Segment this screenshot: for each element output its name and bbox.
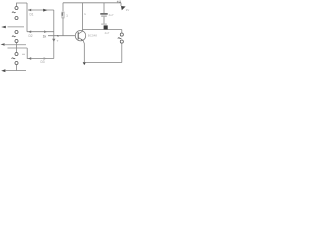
diode arrow D1 [28, 9, 31, 11]
wire winding W2 to line A [16, 43, 18, 52]
wire y27 [8, 26, 25, 28]
top rail y2.8 [63, 2, 121, 4]
svg-text:D2: D2 [29, 34, 33, 38]
winding W3 tilde [12, 57, 16, 60]
wire line B y48 [8, 47, 28, 49]
diode arrow D3 [28, 57, 31, 59]
svg-text:v: v [57, 39, 59, 43]
winding W1 terminal ring top [15, 6, 18, 9]
wire bus x27 [26, 3, 28, 32]
capacitor C1 plate top [100, 13, 107, 14]
faint label above y32 [44, 30, 47, 33]
wire emitter down x84.3 [83, 40, 84, 62]
wire corner top-right [120, 3, 122, 6]
output arrow top-right [121, 6, 126, 10]
wire winding W3 to rail [16, 65, 18, 71]
resistor R1 [62, 12, 64, 18]
tick on y10 [43, 9, 47, 12]
wire base line y35.7 [48, 35, 75, 37]
winding W2 tilde [12, 35, 16, 38]
capacitor C2 body dark [104, 25, 108, 29]
capacitor C1 plate bottom [101, 16, 107, 17]
svg-text:4u7: 4u7 [109, 13, 114, 17]
net arrow left line A [1, 43, 5, 46]
wire x63 lower to base [62, 19, 64, 36]
svg-text:1k: 1k [43, 35, 47, 39]
svg-text:4u7: 4u7 [105, 31, 110, 35]
wire rail bottom-left y70.5 [5, 70, 26, 72]
svg-text:BC548: BC548 [88, 33, 98, 37]
wire y58.5 [28, 58, 54, 60]
wire corner right y29.5 down [121, 30, 123, 33]
svg-text:D1: D1 [30, 12, 34, 16]
small dash right of W3 [22, 53, 25, 55]
output ring top [120, 33, 123, 36]
winding W1 terminal ring bottom [15, 16, 18, 19]
faint marks on y58.5 [44, 57, 47, 60]
output tilde [118, 37, 122, 40]
winding W3 terminal ring top [15, 52, 18, 55]
wire line A y44.8 [5, 44, 26, 46]
transistor Q1 emitter arrow [81, 39, 83, 41]
wire x104 mid [103, 17, 105, 24]
net arrow left line y27 [1, 26, 6, 28]
svg-text:1: 1 [66, 14, 68, 18]
capacitor C2 plate top [101, 24, 107, 25]
svg-text:k: k [85, 12, 87, 16]
wire vertical x53.8 [53, 10, 55, 59]
down arrow on x53.8 [52, 39, 55, 42]
wire y10 [28, 9, 54, 11]
wire x82.5 collector from rail [82, 3, 84, 31]
transistor Q1 circle [75, 31, 85, 41]
diode arrow D2 [28, 31, 31, 33]
wire x63 upper [62, 3, 64, 11]
wire collector line y29.5 [83, 29, 122, 31]
transistor Q1 base bar [77, 32, 79, 39]
wire bus lower x27 [26, 48, 29, 59]
net arrow left rail y70.5 [1, 69, 5, 72]
wire ring bottom down to rail [121, 43, 123, 62]
wire top-left from winding to bus [17, 3, 28, 6]
output ring bottom [120, 40, 123, 43]
ground arrow at emitter [83, 62, 86, 65]
transistor Q1 emitter stroke [78, 37, 83, 40]
wire ground rail y62.5 [84, 62, 122, 64]
transistor Q1 collector stroke [78, 31, 82, 34]
winding W2 terminal ring top [15, 30, 18, 33]
winding W2 terminal ring bottom [15, 39, 18, 42]
svg-text:9V: 9V [126, 8, 130, 12]
winding W3 terminal ring bottom [15, 61, 18, 64]
winding W1 tilde [12, 11, 16, 14]
wire x104 from rail [103, 3, 105, 13]
svg-text:D3: D3 [41, 60, 45, 64]
wire y32 [27, 31, 54, 33]
